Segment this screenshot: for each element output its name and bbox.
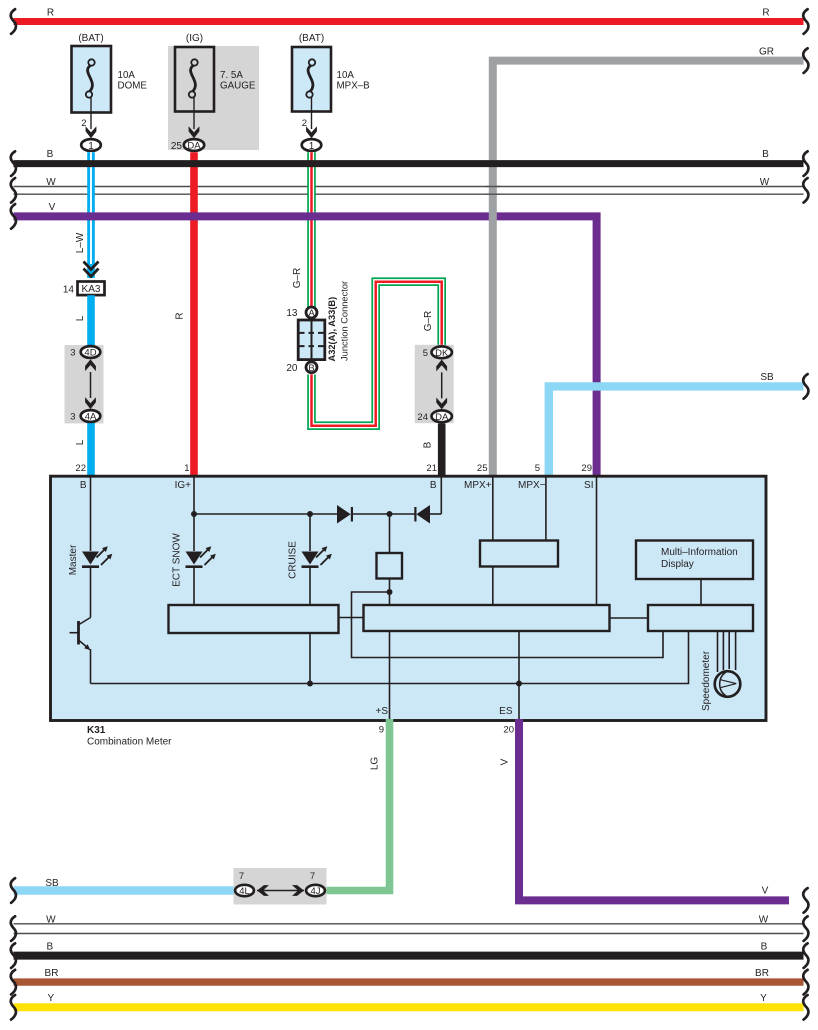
link block1-block2 (339, 617, 364, 619)
MPX transceiver block (480, 478, 558, 607)
combination meter K31 box (51, 476, 767, 747)
svg-text:SI: SI (584, 480, 593, 491)
node at IG+ branch (191, 511, 197, 517)
bus SB (bottom left) (11, 878, 234, 903)
internal rail y=514 (194, 513, 339, 515)
svg-text:GAUGE: GAUGE (220, 81, 256, 92)
connector DA (417, 410, 451, 423)
LED CRUISE (288, 514, 332, 606)
svg-text:MPX−: MPX− (518, 480, 546, 491)
wire ES from block2 to pin 20 (518, 631, 520, 720)
svg-text:Combination Meter: Combination Meter (87, 736, 172, 747)
svg-text:SB: SB (45, 878, 59, 889)
svg-text:DA: DA (435, 412, 449, 423)
LED Master (68, 544, 112, 575)
wire from node to lower-left rail (352, 592, 664, 658)
svg-text:V: V (49, 202, 56, 213)
connector 4D (70, 346, 100, 359)
svg-text:BR: BR (45, 968, 59, 979)
node at diode junction (387, 511, 393, 517)
svg-text:7: 7 (310, 871, 315, 882)
svg-text:22: 22 (75, 463, 86, 474)
svg-text:20: 20 (286, 363, 298, 374)
connector arrows 4D-4A (85, 359, 96, 409)
bus B (bottom black) (11, 941, 809, 967)
svg-text:B: B (46, 941, 53, 952)
svg-text:Junction Connector: Junction Connector (340, 281, 350, 361)
svg-text:CRUISE: CRUISE (288, 541, 299, 579)
wire from pin 22 to Master LED (90, 478, 92, 552)
fuse 10A MPX-B (292, 33, 370, 152)
connector 4D/4A gray panel (65, 345, 104, 423)
svg-text:L: L (75, 439, 86, 445)
svg-text:B: B (80, 480, 87, 491)
svg-text:(BAT): (BAT) (78, 33, 103, 44)
svg-text:5: 5 (535, 463, 540, 474)
svg-text:4J: 4J (310, 886, 320, 897)
svg-text:L–W: L–W (75, 232, 86, 253)
wire L-W (cyan/white) from fuse DOME (75, 152, 91, 278)
LED ECT SNOW (172, 533, 216, 606)
svg-text:25: 25 (171, 141, 183, 152)
svg-text:Speedometer: Speedometer (701, 650, 712, 711)
svg-text:Y: Y (760, 993, 767, 1004)
svg-text:W: W (759, 915, 769, 926)
bus W (upper, twin thin lines) (11, 177, 809, 203)
svg-text:MPX–B: MPX–B (337, 81, 371, 92)
splice chevrons on wire L-W (84, 262, 99, 277)
svg-text:B: B (47, 149, 54, 160)
svg-text:DOME: DOME (118, 81, 148, 92)
svg-text:Display: Display (661, 559, 694, 570)
svg-text:G–R: G–R (292, 268, 303, 289)
svg-text:B: B (308, 363, 314, 374)
svg-text:R: R (762, 8, 769, 19)
connector DK/DA gray panel (415, 345, 454, 423)
wire L (cyan) 4A to meter pin 22 (75, 420, 91, 476)
svg-text:10A: 10A (118, 70, 136, 81)
wire V from meter pin 20 to right edge (500, 719, 809, 913)
svg-text:A: A (308, 308, 315, 319)
svg-text:25: 25 (477, 463, 488, 474)
svg-text:L: L (75, 315, 86, 321)
fuse 7.5A GAUGE (on gray panel) (168, 33, 259, 152)
connector 4L pin 7 (235, 871, 254, 897)
svg-text:13: 13 (286, 308, 298, 319)
svg-text:5: 5 (423, 348, 428, 359)
svg-text:MPX+: MPX+ (464, 480, 492, 491)
svg-text:7: 7 (239, 871, 244, 882)
svg-text:ES: ES (499, 706, 513, 717)
svg-text:3: 3 (70, 412, 75, 423)
node ES on emitter rail (516, 681, 522, 687)
svg-text:B: B (761, 941, 768, 952)
svg-text:A32(A), A33(B): A32(A), A33(B) (327, 297, 337, 362)
connector 4J pin 7 (306, 871, 325, 897)
svg-text:SB: SB (760, 372, 774, 383)
svg-text:W: W (46, 177, 56, 188)
svg-text:(IG): (IG) (186, 33, 203, 44)
link block2-block3 (610, 617, 649, 619)
bus BR (brown) (11, 968, 809, 994)
svg-text:W: W (46, 915, 56, 926)
svg-text:B: B (762, 149, 769, 160)
bus W (bottom twin thin lines) (11, 915, 809, 941)
svg-text:10A: 10A (337, 70, 355, 81)
svg-text:20: 20 (503, 725, 514, 736)
connector 4A (70, 410, 100, 423)
svg-text:9: 9 (379, 725, 384, 736)
svg-text:V: V (762, 886, 769, 897)
IC block 2 (364, 605, 610, 631)
speedometer (701, 631, 740, 711)
wire bus W over GR crossing (486, 187, 500, 195)
connector arrows 4L-4J (257, 885, 304, 896)
diode D2 (pointing left) (415, 478, 441, 524)
svg-text:4A: 4A (85, 412, 97, 423)
svg-text:G–R: G–R (423, 311, 434, 332)
node on emitter rail (307, 681, 313, 687)
wire G-R from junction connector B to connector DK (312, 282, 442, 426)
svg-text:1: 1 (88, 141, 94, 152)
svg-text:B: B (430, 480, 437, 491)
svg-text:14: 14 (63, 285, 75, 296)
svg-text:W: W (760, 177, 770, 188)
wire LED to transistor (90, 567, 92, 618)
wire CRUISE below block1 (309, 633, 311, 684)
svg-text:B: B (423, 441, 434, 448)
fuse 10A DOME (72, 33, 148, 152)
svg-text:7. 5A: 7. 5A (220, 70, 243, 81)
svg-text:24: 24 (417, 412, 428, 423)
svg-text:(BAT): (BAT) (299, 33, 324, 44)
connector 4L/4J gray panel (234, 868, 327, 905)
svg-text:LG: LG (370, 757, 381, 771)
svg-text:Y: Y (47, 993, 54, 1004)
svg-text:4D: 4D (84, 348, 96, 359)
svg-text:3: 3 (70, 348, 75, 359)
svg-text:4L: 4L (239, 886, 250, 897)
svg-text:V: V (500, 758, 511, 765)
svg-text:IG+: IG+ (175, 480, 192, 491)
svg-text:Multi–Information: Multi–Information (661, 547, 738, 558)
IC block 3 (648, 605, 753, 631)
svg-text:21: 21 (426, 463, 437, 474)
resistor block (small square) (377, 514, 403, 606)
svg-text:1: 1 (309, 141, 315, 152)
node CRUISE branch (307, 511, 313, 517)
node below resistor (387, 589, 393, 595)
svg-text:+S: +S (375, 706, 388, 717)
bus R (top, red) (11, 8, 809, 34)
bus GR (gray) with drop to meter pin 25 (477, 47, 809, 476)
connector KA3 pin 14 (63, 282, 105, 296)
svg-text:R: R (175, 312, 186, 319)
meter pin name labels (80, 480, 594, 717)
svg-text:29: 29 (581, 463, 592, 474)
svg-text:DK: DK (435, 348, 449, 359)
wire L (cyan) KA3 to 4D (75, 295, 91, 349)
svg-text:KA3: KA3 (82, 284, 101, 295)
bottom internal wire (emitter rail) (91, 632, 689, 684)
wire LG from meter pin 9 to connector 4J (326, 719, 390, 891)
junction connector A32(A), A33(B) (286, 281, 349, 374)
Multi-Information Display block (636, 541, 753, 606)
wire G-R from fuse MPX-B to junction connector A (292, 152, 312, 307)
wire R (red) from fuse GAUGE to meter pin 1 (175, 152, 195, 476)
svg-text:1: 1 (184, 463, 189, 474)
bus SB (light blue) with drop to meter pin 5 (535, 372, 809, 476)
svg-text:GR: GR (759, 47, 774, 58)
svg-text:K31: K31 (87, 725, 106, 736)
connector arrows DK-DA (436, 360, 447, 410)
connector DK (423, 346, 452, 359)
svg-text:BR: BR (755, 968, 769, 979)
svg-text:DA: DA (187, 141, 201, 152)
wire from pin 1 IG+ down (193, 478, 195, 552)
IC block 1 (169, 605, 339, 633)
svg-text:Master: Master (68, 544, 79, 575)
wire B (black) DA to meter pin 21 (423, 424, 442, 477)
bus B (black) (11, 149, 809, 176)
bus V (purple) with drop to meter pin 29 (11, 202, 597, 476)
transistor Q (meter driver) (70, 618, 91, 684)
wire +S from block2 to pin 9 (389, 631, 391, 720)
wire SI pin 29 to block2 (596, 478, 598, 607)
svg-text:ECT SNOW: ECT SNOW (172, 533, 183, 587)
bus Y (yellow) (11, 993, 809, 1020)
diode D1 (pointing right) (337, 505, 415, 524)
svg-text:R: R (47, 8, 54, 19)
